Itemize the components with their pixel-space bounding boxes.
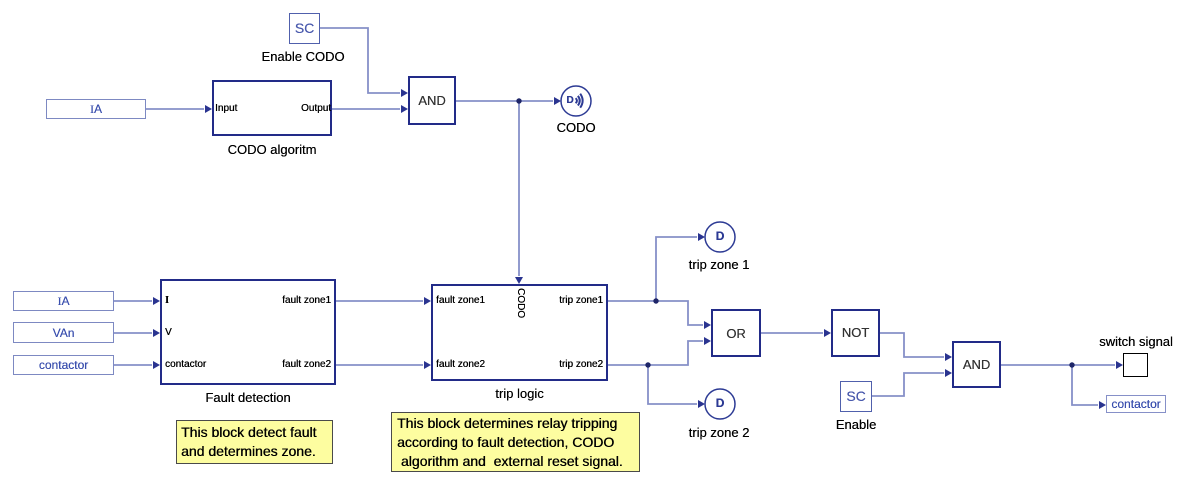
arrowhead Fault detection V	[153, 329, 160, 337]
wire branch to contactor out	[1072, 365, 1098, 405]
arrowhead trip zone 1 sink	[698, 233, 705, 241]
block contactor out	[1106, 395, 1166, 413]
wire branch to trip zone 2 sink	[648, 365, 697, 404]
arrowhead AND2 input1	[945, 353, 952, 361]
arrowhead NOT input	[824, 329, 831, 337]
junction dot AND2 output	[1069, 362, 1074, 367]
wire IA2 to Fault detection I	[114, 300, 152, 302]
label D in trip zone 1 sink	[707, 230, 733, 243]
port label fault zone2 out	[160, 359, 331, 370]
wire SC2 to AND2 input2	[872, 373, 944, 396]
port label CODO rotated	[514, 288, 526, 318]
wire trip zone2 to OR input2	[608, 341, 703, 365]
wire branch to trip zone 1 sink	[656, 237, 697, 301]
arrowhead switch signal	[1116, 361, 1123, 369]
block contactor input	[13, 355, 114, 375]
port label fault zone1 out	[160, 295, 331, 306]
wire fault zone1 to trip logic	[336, 300, 423, 302]
sound icon arcs in CODO sink	[576, 94, 583, 108]
junction dot trip zone1	[653, 298, 658, 303]
wire contactor to Fault detection contactor	[114, 364, 152, 366]
label trip zone 1	[669, 257, 769, 272]
block switch signal	[1123, 353, 1148, 377]
arrowhead trip logic fault zone1	[424, 297, 431, 305]
port label fault zone1 in	[436, 295, 485, 306]
block CODO algoritm	[212, 80, 332, 136]
arrowhead AND1 input2	[401, 105, 408, 113]
label D in CODO sink	[557, 95, 583, 106]
arrowhead AND2 input2	[945, 369, 952, 377]
block VAn input	[13, 322, 114, 343]
arrowhead Fault detection I	[153, 297, 160, 305]
sink circle trip zone 2	[705, 389, 735, 419]
block AND1	[408, 76, 456, 125]
label CODO algoritm	[212, 142, 332, 157]
label trip zone 2	[669, 425, 769, 440]
wire NOT output to AND2 input1	[880, 333, 944, 357]
arrowhead trip logic fault zone2	[424, 361, 431, 369]
label CODO sink	[546, 120, 606, 135]
arrowhead OR input1	[704, 321, 711, 329]
junction dot AND1 output	[516, 98, 521, 103]
label Fault detection	[160, 390, 336, 405]
wire SC1 to AND1 input1	[320, 28, 400, 93]
junction dot trip zone2	[645, 362, 650, 367]
block NOT	[831, 309, 880, 357]
sink circle trip zone 1	[705, 222, 735, 252]
label switch signal	[1086, 334, 1180, 349]
port label fault zone2 in	[436, 359, 485, 370]
port label Input	[215, 103, 237, 114]
block AND2	[952, 341, 1001, 388]
block SC2 Enable source	[840, 381, 872, 412]
arrowhead AND1 input1	[401, 89, 408, 97]
label D in trip zone 2 sink	[707, 397, 733, 410]
block OR	[711, 309, 761, 357]
annotation note 1	[176, 420, 333, 464]
block IA2 input	[13, 291, 114, 311]
sink circle CODO	[561, 86, 591, 116]
wire CODO algoritm Output to AND1 input2	[332, 108, 400, 110]
port label V	[165, 327, 172, 338]
annotation note 2	[391, 412, 640, 472]
wire AND2 output to switch signal	[1001, 364, 1115, 366]
arrowhead Fault detection contactor	[153, 361, 160, 369]
wire IA1 to CODO algoritm Input	[146, 108, 204, 110]
port label trip zone1	[431, 295, 603, 306]
port label trip zone2	[431, 359, 603, 370]
label Enable CODO	[243, 49, 363, 64]
label Enable	[816, 417, 896, 432]
port label Output	[215, 103, 331, 114]
arrowhead contactor out	[1099, 401, 1106, 409]
block IA1 input	[46, 99, 146, 119]
label trip logic	[431, 386, 608, 401]
wire OR output to NOT	[761, 332, 823, 334]
block trip logic	[431, 284, 608, 381]
arrowhead into trip logic top	[515, 277, 523, 284]
arrowhead OR input2	[704, 337, 711, 345]
block SC1 Enable CODO source	[289, 13, 320, 44]
arrowhead into CODO sink	[554, 97, 561, 105]
port label contactor	[165, 359, 206, 370]
block Fault detection	[160, 279, 336, 385]
arrowhead into CODO algoritm	[205, 105, 212, 113]
port label I	[165, 295, 169, 306]
wire junction branch down to trip logic CODO port	[518, 101, 520, 276]
wire AND1 output to CODO sink	[456, 100, 553, 102]
wire fault zone2 to trip logic	[336, 364, 423, 366]
arrowhead trip zone 2 sink	[698, 400, 705, 408]
wire trip zone1 to OR input1	[608, 301, 703, 325]
wire VAn to Fault detection V	[114, 332, 152, 334]
